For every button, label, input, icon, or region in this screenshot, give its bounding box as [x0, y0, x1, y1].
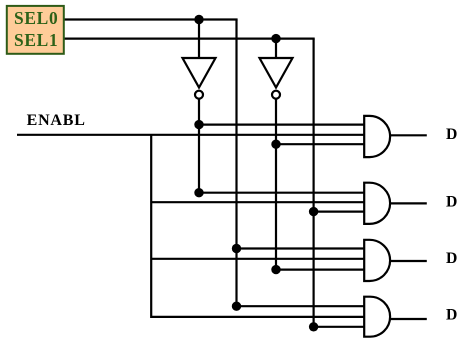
- junction U2 output to G3: [271, 265, 280, 274]
- wire inverter U2 input stub: [275, 39, 277, 58]
- wire gate G1 top input from U1 output: [199, 123, 365, 125]
- junction U1 output to G2: [194, 188, 203, 197]
- wire output of G3: [390, 260, 427, 262]
- and-gate G3: [364, 240, 390, 281]
- inverter U2 (SEL1): [260, 58, 293, 99]
- junction SEL1 bus to G4: [309, 322, 318, 331]
- wire SEL1 horizontal from box: [64, 37, 315, 39]
- svg-text:ENABL: ENABL: [27, 112, 86, 129]
- input box SEL0/SEL1: [7, 6, 64, 54]
- junction SEL1 tap to inverter U2: [271, 34, 280, 43]
- wire SEL0 vertical bus: [235, 20, 237, 307]
- junction SEL0 tap to inverter U1: [194, 15, 203, 24]
- wire ENABL vertical distribution: [150, 135, 152, 318]
- svg-text:SEL0: SEL0: [14, 8, 58, 28]
- junction U2 output to G1: [271, 140, 280, 149]
- junction SEL1 bus to G2: [309, 207, 318, 216]
- svg-text:D: D: [446, 306, 457, 323]
- svg-text:D: D: [446, 126, 457, 143]
- junction SEL0 bus to G4: [232, 302, 241, 311]
- wire gate G4 middle input from ENABL: [151, 316, 365, 318]
- wire gate G2 bottom input from SEL1: [314, 211, 365, 213]
- wire gate G4 bottom input from SEL1: [314, 326, 365, 328]
- wire output of G1: [390, 134, 427, 136]
- junction U1 output to G1: [194, 120, 203, 129]
- wire SEL1 vertical bus: [313, 39, 315, 327]
- wire gate G2 top input from U1 output: [199, 192, 365, 194]
- svg-text:D: D: [446, 194, 457, 211]
- and-gate G2: [364, 183, 390, 224]
- wire output of G2: [390, 202, 427, 204]
- wire ENABL horizontal main: [17, 134, 365, 136]
- wire inverter U1 output vertical: [198, 100, 200, 193]
- wire gate G3 top input from SEL0: [237, 247, 365, 249]
- and-gate G4: [364, 297, 390, 337]
- wire gate G1 bottom input from U2 output: [276, 143, 365, 145]
- svg-text:SEL1: SEL1: [14, 30, 58, 50]
- wire gate G4 top input from SEL0: [237, 305, 365, 307]
- wire gate G3 middle input from ENABL: [151, 258, 365, 260]
- inverter U1 (SEL0): [183, 58, 216, 99]
- and-gate G1: [364, 116, 390, 157]
- wire inverter U1 input stub: [198, 20, 200, 59]
- wire gate G3 bottom input from U2 output: [276, 269, 365, 271]
- wire inverter U2 output vertical: [275, 100, 277, 270]
- wire output of G4: [390, 318, 427, 320]
- wire SEL0 horizontal from box: [64, 18, 238, 20]
- wire gate G2 middle input from ENABL: [151, 201, 365, 203]
- svg-text:D: D: [446, 250, 457, 267]
- junction SEL0 bus to G3: [232, 244, 241, 253]
